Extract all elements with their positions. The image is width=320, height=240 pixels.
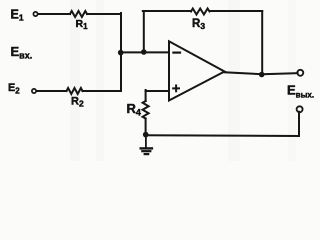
wire E1 to R1 [38,13,70,15]
faint scan streaks [70,0,296,161]
node A junction dot R1R2 [118,50,124,56]
wire vertical R1/R2 to summing node [120,13,122,91]
wire E2 to R2 [37,90,67,92]
wire R4 to ground junction [145,119,147,135]
terminal output lower [297,106,303,112]
terminal E1 input [33,12,37,16]
wire summing node to op-amp inverting input [121,51,170,53]
wire plus input down to R4 [145,90,147,101]
junction dot output/feedback [259,72,265,78]
wire feedback left vertical [143,11,145,52]
node B junction dot feedback [141,49,147,55]
resistor R1 [70,11,87,17]
ground [141,135,152,155]
resistor R4 [143,101,149,119]
op-amp U1 [169,41,225,100]
junction dot ground node [143,132,149,138]
wire bottom return [146,112,299,136]
wire feedback right vertical [261,11,263,75]
wire R3 to top right corner [210,10,263,12]
op-amp minus pin [173,51,180,53]
wire R2 to corner [83,90,122,92]
wire R1 to corner [87,13,121,15]
terminal output upper [297,70,303,76]
terminal E2 input [32,89,36,93]
wire op-amp output [225,72,298,74]
resistor R2 [67,88,83,94]
wire op-amp noninverting input [146,90,169,92]
resistor R3 [191,9,209,15]
op-amp plus pin [173,86,179,92]
wire top left to R3 [143,10,191,12]
